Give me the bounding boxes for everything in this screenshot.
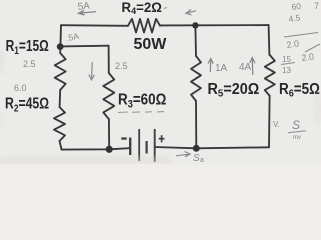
svg-text:60: 60 <box>291 1 302 12</box>
wire middle branch vertical lower <box>108 119 110 149</box>
label R1=15ohm <box>6 36 49 57</box>
wire top right corner vertical <box>268 25 271 55</box>
paper background <box>0 0 321 164</box>
faint left edge smudge <box>0 49 3 75</box>
handwritten right arrow bottom <box>176 152 190 157</box>
wire bottom right segment <box>155 147 269 148</box>
svg-text:1A: 1A <box>215 63 228 74</box>
label 50W <box>134 36 168 53</box>
svg-text:2.5: 2.5 <box>115 61 128 71</box>
svg-text:2.0: 2.0 <box>286 38 300 50</box>
svg-text:2.0: 2.0 <box>301 51 315 63</box>
handwritten up arrow and 1A <box>208 59 213 73</box>
wire R5 branch lower <box>195 101 197 148</box>
resistor R5 <box>191 56 201 101</box>
node D bottom right junction dot <box>193 145 200 152</box>
handwritten down arrow middle branch <box>89 62 95 80</box>
svg-text:6.0: 6.0 <box>14 83 27 93</box>
faint bottom band <box>0 157 170 164</box>
svg-text:R5=20Ω: R5=20Ω <box>208 80 260 99</box>
handwritten dashes under R3 label <box>118 111 164 114</box>
svg-text:R6=5Ω: R6=5Ω <box>279 81 320 100</box>
wire bottom left segment <box>61 148 130 150</box>
label R5=20ohm <box>208 80 260 99</box>
wire node A to middle branch <box>60 45 108 48</box>
label R4=2ohm <box>122 0 162 16</box>
svg-text:V.: V. <box>273 120 280 129</box>
battery plus sign <box>159 135 165 142</box>
svg-text:2.5: 2.5 <box>23 59 36 69</box>
svg-text:50W: 50W <box>134 36 168 53</box>
label R3=60ohm <box>118 91 167 110</box>
battery negative short plate <box>129 138 131 156</box>
svg-text:7: 7 <box>314 1 319 11</box>
resistor R6 <box>265 55 275 96</box>
handwritten left arrow under 5A <box>79 11 97 16</box>
label R2=45ohm <box>5 94 49 115</box>
resistor R1 <box>55 47 66 90</box>
svg-text:R2=45Ω: R2=45Ω <box>5 94 49 115</box>
svg-text:4A: 4A <box>239 62 252 73</box>
svg-text:R3=60Ω: R3=60Ω <box>118 91 167 110</box>
faint left edge smudge lower <box>0 110 4 130</box>
svg-text:R1=15Ω: R1=15Ω <box>6 36 49 57</box>
resistor R2 <box>54 107 65 141</box>
svg-text:S: S <box>292 118 300 132</box>
handwritten up arrow right of 4A <box>250 58 255 76</box>
wire R6 branch lower <box>268 96 271 147</box>
handwritten diagonal stroke right margin <box>305 44 320 52</box>
battery long plate 1 <box>138 129 140 161</box>
faint mark right of R4 label <box>164 8 168 9</box>
node C bottom middle junction dot <box>106 146 113 153</box>
handwritten underline below S <box>288 131 306 133</box>
battery long plate 2 <box>154 129 156 162</box>
svg-text:R4=2Ω: R4=2Ω <box>122 0 162 16</box>
handwritten squiggle arrow near node B <box>186 10 196 15</box>
label R6=5ohm <box>279 81 320 100</box>
node B top junction dot <box>192 22 198 28</box>
wire left bottom vertical <box>60 141 62 149</box>
node A junction dot <box>57 43 64 50</box>
wire left corner vertical <box>59 25 62 46</box>
svg-text:S: S <box>193 153 200 164</box>
battery short middle plate <box>146 141 148 154</box>
faint right margin blotch <box>314 92 321 124</box>
wire R5 branch upper <box>194 25 197 56</box>
battery minus sign <box>121 137 126 139</box>
wire middle branch vertical upper <box>108 46 110 73</box>
resistor R4 <box>128 19 160 33</box>
svg-text:a: a <box>200 157 204 164</box>
resistor R3 <box>103 73 114 119</box>
svg-text:mv: mv <box>293 135 301 141</box>
svg-text:13: 13 <box>282 66 291 75</box>
battery B1 <box>130 129 155 162</box>
wire between R1 and R2 <box>59 90 62 107</box>
handwritten fraction line right margin <box>284 33 318 38</box>
wire top left segment <box>61 24 128 27</box>
svg-text:4.5: 4.5 <box>288 12 301 24</box>
svg-text:15: 15 <box>282 55 291 64</box>
wire top right segment <box>160 24 269 26</box>
